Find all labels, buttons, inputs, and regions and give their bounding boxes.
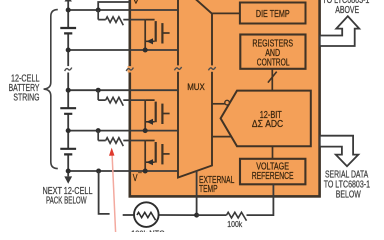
wire external temp pin to thermistor node <box>196 171 198 216</box>
svg-text:PACK BELOW: PACK BELOW <box>46 196 87 207</box>
wire ADC to VOLTAGE REFERENCE <box>272 146 274 158</box>
junction node tap feed R2 <box>96 88 101 93</box>
junction node tap feed R3 <box>96 128 101 133</box>
brace 12-cell battery string <box>44 10 58 169</box>
wire cell tap C11 tap <box>68 49 178 51</box>
red annotation arrow pointing at R3 <box>109 148 116 233</box>
wire MUX to ADC lower input <box>212 136 232 138</box>
label 12-CELL BATTERY STRING <box>9 74 40 104</box>
resistor 100k <box>197 212 247 229</box>
node arrow up to cells above <box>65 0 72 2</box>
VOLTAGE REFERENCE block <box>240 159 305 185</box>
junction node Q3 source on tap <box>143 169 148 174</box>
svg-text:BELOW: BELOW <box>336 190 362 201</box>
wire 100k to VOLTAGE REFERENCE <box>247 184 274 215</box>
svg-text:V: V <box>133 0 140 6</box>
junction node on battery string tap 2 <box>66 48 71 53</box>
battery cell B3 <box>60 149 76 155</box>
junction node on battery string tap 5 <box>66 169 71 174</box>
junction node external temp / thermistor / 100k <box>194 213 199 218</box>
svg-text:100k: 100k <box>227 219 242 229</box>
label EXTERNAL TEMP <box>199 175 235 195</box>
label NEXT 12-CELL PACK BELOW <box>43 186 93 207</box>
wire bottom tap down to thermistor row <box>99 171 110 214</box>
resistor R2 (series S-pin resistor) <box>97 90 99 100</box>
serial arrow to LTC6803-1 below <box>320 136 359 167</box>
wire MUX to ADC bubble input <box>212 103 225 105</box>
junction node bottom tap to thermistor <box>96 169 101 174</box>
wire V+ pin stub <box>98 2 130 10</box>
junction node on battery string tap 4 <box>66 128 71 133</box>
svg-text:ABOVE: ABOVE <box>335 5 359 16</box>
break mark on MUX left edge <box>174 65 181 71</box>
junction node on battery string tap 1 <box>66 8 71 13</box>
wire cell tap C1 tap <box>68 130 178 132</box>
junction node tap feed R1 <box>96 8 101 13</box>
wire MUX to DIE TEMP <box>212 12 240 14</box>
battery cell B2 <box>60 108 76 114</box>
ADC 12-bit delta-sigma converter <box>221 91 311 147</box>
svg-text:TEMP: TEMP <box>199 184 218 195</box>
control bus wire REGISTERS to ADC <box>271 69 273 91</box>
thermistor 100k NTC <box>123 202 197 227</box>
svg-text:MUX: MUX <box>187 82 205 93</box>
svg-text:REFERENCE: REFERENCE <box>252 171 294 182</box>
wire cell tap V- bottom tap <box>68 170 178 172</box>
ADC inverting input bubble <box>225 100 230 105</box>
bus width slash <box>268 72 277 83</box>
REGISTERS AND CONTROL block <box>240 35 305 69</box>
battery cell B1 <box>60 28 76 33</box>
label SERIAL DATA TO LTC6803-1 BELOW <box>324 169 370 200</box>
DIE TEMP block <box>240 3 306 24</box>
label TO LTC6803-1 ABOVE <box>322 0 369 16</box>
discharge MOSFET Q3 <box>145 141 169 172</box>
IC body LTC6803-1 <box>130 0 320 196</box>
resistor R1 (series S-pin resistor) <box>97 10 99 20</box>
serial arrow to LTC6803-1 above <box>320 16 359 46</box>
resistor R3 (series S-pin resistor) <box>97 131 99 141</box>
node arrow down to next pack <box>67 171 69 176</box>
break mark on IC left edge <box>126 66 133 72</box>
wire cell tap C10 tap <box>68 89 178 91</box>
svg-text:ΔΣ ADC: ΔΣ ADC <box>252 119 283 130</box>
svg-text:CONTROL: CONTROL <box>257 58 290 69</box>
junction node Q1 source on tap <box>143 48 148 53</box>
break mark on MUX right edge <box>208 65 215 71</box>
MUX trapezoid <box>178 0 212 178</box>
discharge MOSFET Q2 <box>145 100 169 131</box>
battery string wire <box>67 1 69 172</box>
svg-text:STRING: STRING <box>13 93 39 104</box>
break mark on battery string <box>65 66 72 72</box>
svg-text:100k NTC: 100k NTC <box>131 228 164 232</box>
junction node Q2 source on tap <box>143 128 148 133</box>
svg-text:DIE TEMP: DIE TEMP <box>256 9 290 20</box>
discharge MOSFET Q1 <box>145 20 169 50</box>
wire cell tap C12 top tap <box>68 9 178 11</box>
junction node on battery string tap 3 <box>66 88 71 93</box>
